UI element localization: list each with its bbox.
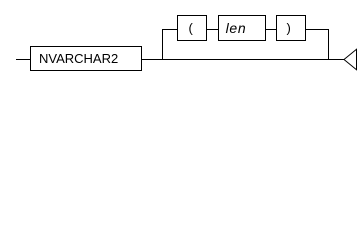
terminal box ( (178, 16, 207, 41)
svg-text:len: len (226, 20, 247, 36)
wire: main line from NVARCHAR2 box to arrow apex (142, 59, 345, 61)
wire: right riser down to main line (328, 29, 330, 60)
wire: main line entry segment (16, 59, 31, 61)
svg-text:): ) (287, 20, 291, 35)
wire: left riser up from main line (162, 29, 164, 60)
terminal box ) (277, 16, 306, 41)
wire: top branch segment riser to ( box (162, 29, 178, 31)
wire: top branch segment ) box to right riser (306, 29, 330, 31)
variable box len (219, 16, 266, 41)
end terminator arrow (344, 49, 357, 69)
svg-text:NVARCHAR2: NVARCHAR2 (39, 51, 118, 66)
wire: top branch segment len box to ) box (266, 29, 277, 31)
terminal box NVARCHAR2 (31, 47, 142, 71)
svg-text:(: ( (189, 20, 194, 35)
wire: top branch segment ( box to len box (207, 29, 219, 31)
